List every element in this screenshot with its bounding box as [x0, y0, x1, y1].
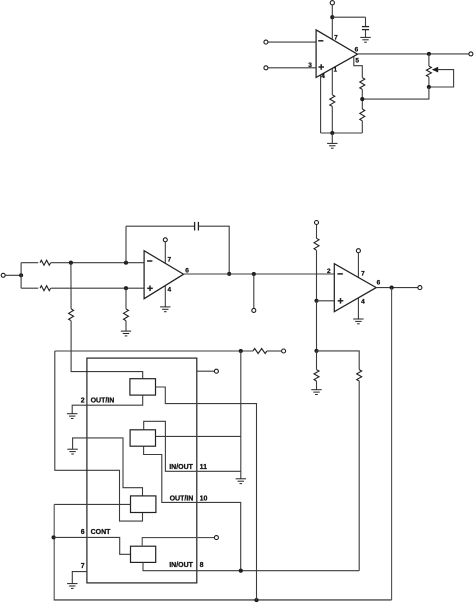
- wire U3 pin 4: [357, 298, 359, 319]
- wire wiper loop: [431, 70, 454, 87]
- capacitor C2 (feedback): [195, 222, 199, 231]
- svg-text:7: 7: [361, 270, 365, 277]
- wire R2 to node: [361, 89, 363, 109]
- wire split up: [20, 263, 22, 276]
- node input terminal (pin 2): [264, 40, 268, 44]
- resistor R1 (pin1): [330, 95, 335, 107]
- svg-text:IN/OUT: IN/OUT: [169, 562, 193, 569]
- wire W1 top rail: [55, 350, 253, 352]
- wire R7 to ground: [125, 321, 127, 331]
- wire rail to R8: [316, 225, 318, 239]
- node IN/OUT 8 junction: [239, 569, 243, 573]
- node junction at R7 branch: [124, 286, 128, 290]
- wire R9 to ground: [316, 381, 318, 390]
- U1 minus symbol: [318, 40, 323, 42]
- node divider junction: [360, 97, 364, 101]
- wire pin 5 stub: [354, 57, 363, 78]
- U3 minus symbol: [337, 273, 343, 275]
- ground (top circuit): [327, 143, 337, 148]
- wire pin 7 stub: [72, 572, 87, 584]
- node test terminal: [252, 308, 256, 312]
- wire bottom rail: [321, 132, 363, 134]
- wire to R5: [21, 287, 38, 289]
- wire U1 output: [358, 53, 469, 55]
- wire R6 down to IC section: [71, 321, 143, 379]
- node VCC terminal (top power): [330, 1, 334, 5]
- resistor R10: [357, 370, 362, 381]
- svg-text:IN/OUT: IN/OUT: [169, 464, 193, 471]
- wire split down: [20, 275, 22, 288]
- svg-text:4: 4: [167, 286, 171, 293]
- svg-text:CONT: CONT: [91, 529, 112, 536]
- wire U3 pin 7: [357, 253, 359, 277]
- wire S2 top chain to IN/OUT 11: [144, 421, 241, 471]
- wire R1 to bottom rail: [331, 106, 333, 133]
- wire down to test terminal: [253, 274, 255, 308]
- svg-text:OUT/IN: OUT/IN: [91, 398, 115, 405]
- node input terminal (pin 3): [264, 66, 268, 70]
- node U3 output junction: [390, 286, 394, 290]
- svg-text:1: 1: [333, 67, 337, 74]
- wire non-inverting input of U1 (pin 3): [268, 67, 316, 69]
- resistor R2 (pin5 upper): [360, 78, 365, 90]
- switch S1: [130, 379, 156, 395]
- switch S2: [130, 430, 155, 446]
- wire plus node down to W2 node: [316, 301, 318, 351]
- wire CONT (pin 6): [54, 537, 131, 554]
- node W1 junction: [239, 349, 243, 353]
- op-amp U3: [334, 264, 376, 312]
- svg-text:6: 6: [185, 267, 189, 274]
- ground (U2 pin 4): [160, 307, 170, 312]
- wire right rail segment to ground: [240, 351, 242, 479]
- wire inverting input of U1: [268, 41, 316, 43]
- node branch to test terminal: [252, 272, 256, 276]
- node W1 terminal: [282, 349, 286, 353]
- resistor R9: [314, 370, 319, 381]
- node junction at R6 branch: [69, 261, 73, 265]
- ground (pin 7): [67, 584, 77, 589]
- ground (IN/OUT 11): [236, 479, 246, 484]
- wire feedback top run: [126, 225, 194, 227]
- ground (R7): [121, 331, 131, 336]
- wire pin 4 lead: [320, 75, 322, 133]
- svg-text:6: 6: [355, 47, 359, 54]
- node feedback/output junction: [227, 272, 231, 276]
- resistor R7: [124, 309, 129, 321]
- svg-text:6: 6: [377, 279, 381, 286]
- wire to potentiometer: [428, 54, 430, 66]
- wire input lead: [5, 274, 21, 276]
- svg-text:5: 5: [355, 57, 359, 64]
- svg-text:10: 10: [200, 495, 208, 502]
- node U2 pin7 terminal: [163, 238, 167, 242]
- wire RP1 bottom: [428, 77, 430, 87]
- wire S2 right pin: [156, 435, 241, 437]
- node W2 junction: [314, 349, 318, 353]
- svg-text:7: 7: [334, 35, 338, 42]
- wire power vertical to pin 7: [331, 5, 333, 39]
- wire R5 to U2 non-inverting input: [51, 287, 144, 289]
- node output terminal: [469, 52, 473, 56]
- node pot bottom junction: [427, 85, 431, 89]
- wire U3 output: [376, 287, 418, 289]
- svg-text:6: 6: [81, 529, 85, 536]
- wire gnd up over to box3 top: [73, 438, 143, 496]
- node power junction: [330, 15, 334, 19]
- wire to R4: [21, 262, 38, 264]
- node S4 terminal: [214, 536, 218, 540]
- svg-text:3: 3: [308, 62, 312, 69]
- RP1 wiper arrow: [432, 67, 438, 73]
- svg-text:2: 2: [81, 398, 85, 405]
- wire feedback up: [125, 226, 127, 263]
- ground (R9): [311, 390, 321, 395]
- ground for C1: [360, 37, 370, 42]
- wire U2 pin 7: [164, 242, 166, 263]
- node bottom rail junction: [330, 131, 334, 135]
- svg-text:4: 4: [321, 73, 325, 80]
- resistor R8: [314, 238, 319, 250]
- wire feedback: output down right side: [391, 288, 393, 600]
- wire R6 branch down: [70, 263, 72, 309]
- wire S4 top to terminal: [142, 538, 214, 547]
- wire U3 plus input: [317, 300, 335, 302]
- node bottom rail junction: [254, 598, 258, 602]
- ground chain for box3 top: ground symbol: [67, 449, 77, 454]
- wire S1 bottom to pin 2: [72, 395, 143, 413]
- svg-text:8: 8: [200, 562, 204, 569]
- svg-text:7: 7: [167, 257, 171, 264]
- wire bottom rail: [54, 599, 392, 601]
- resistor R11 (W1): [253, 349, 267, 354]
- node U3 output terminal: [418, 286, 422, 290]
- IC U4 body: [87, 358, 197, 583]
- wire to bypass capacitor: [332, 16, 365, 18]
- wire R4 to U2 inverting input: [51, 262, 144, 264]
- node output junction: [427, 52, 431, 56]
- wire S4 bottom / IN-OUT 8 run: [143, 562, 359, 570]
- svg-text:OUT/IN: OUT/IN: [170, 495, 194, 502]
- node U3 pin7 terminal: [356, 249, 360, 253]
- svg-text:2: 2: [327, 268, 331, 275]
- resistor R4 (upper input): [40, 260, 51, 265]
- switch S4: [131, 546, 156, 562]
- U1 plus symbol: [318, 64, 324, 70]
- resistor R5 (lower input): [40, 286, 51, 291]
- wire S1 right chain down to bottom rail: [156, 387, 257, 600]
- op-amp U1: [316, 30, 357, 78]
- wire S2 bottom chain (OUT/IN 10): [144, 446, 241, 571]
- wire U2 output to U3: [184, 273, 335, 275]
- svg-text:4: 4: [361, 298, 365, 305]
- wire U2 pin 4: [164, 286, 166, 307]
- wire R10 down to IN/OUT 8: [358, 381, 360, 571]
- wire feedback to output: [199, 226, 230, 274]
- wire R3 to bottom rail: [361, 121, 363, 133]
- resistor R3 (pin5 lower): [360, 109, 365, 121]
- wire box3 left pin to left rail: [54, 503, 130, 505]
- wire pin 1 lead: [331, 68, 333, 95]
- wire R7 branch down: [125, 288, 127, 309]
- U2 plus symbol: [147, 286, 153, 292]
- node junction at feedback branch: [124, 261, 128, 265]
- wire pot to divider node: [362, 87, 429, 99]
- ground (U3 pin 4): [353, 319, 363, 324]
- switch S3: [131, 496, 156, 513]
- capacitor C1 (bypass): [362, 17, 369, 37]
- op-amp U2: [144, 251, 184, 299]
- potentiometer RP1: [426, 66, 431, 77]
- node CONT junction: [52, 535, 56, 539]
- svg-text:11: 11: [200, 464, 208, 471]
- wire IC right stub: [197, 370, 214, 372]
- wire left rail A (W1 corner down to box3 bottom): [55, 351, 143, 521]
- wire R11 to terminal: [267, 350, 282, 352]
- U3 plus symbol: [338, 298, 344, 304]
- svg-text:7: 7: [81, 563, 85, 570]
- node input split junction: [19, 273, 23, 277]
- U2 minus symbol: [147, 260, 152, 262]
- node bias rail terminal: [315, 221, 319, 225]
- node U3 plus junction: [314, 299, 318, 303]
- wire to R9: [316, 351, 318, 370]
- wire W2 to R10: [317, 351, 360, 370]
- wire ground stem: [331, 133, 333, 143]
- resistor R6: [69, 309, 74, 321]
- node signal input terminal: [1, 273, 5, 277]
- ground (pin 2): [67, 414, 77, 419]
- node stub terminal: [214, 369, 218, 373]
- wire left rail up: [53, 504, 55, 600]
- wire R8 to plus node: [316, 250, 318, 300]
